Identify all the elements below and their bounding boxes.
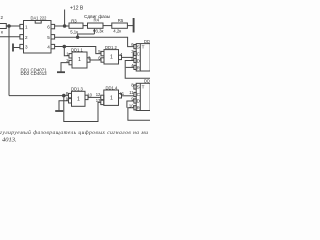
svg-text:1: 1: [110, 96, 113, 102]
svg-text:4: 4: [47, 45, 50, 50]
pin number DD1.2 out: [120, 52, 123, 57]
ground under DD1.1: [57, 71, 65, 73]
pin 1 stub DD1.1: [69, 54, 72, 58]
svg-text:DD2 CD4013: DD2 CD4013: [21, 71, 48, 76]
label R2 value: [1, 15, 4, 35]
svg-text:к: к: [1, 30, 3, 35]
pin number DD1.1 out: [88, 55, 91, 60]
pin 2 stub DD1.1: [69, 60, 72, 64]
wire junction down to DD1.1 pin1: [64, 47, 69, 56]
ground bar top right: [133, 18, 135, 33]
wire R5 to common bar: [127, 25, 133, 27]
svg-text:R3: R3: [71, 18, 77, 23]
wire DD1.4 out to DD2.2 C: [122, 95, 134, 97]
svg-text:S: S: [137, 85, 140, 90]
resistor R5: [112, 23, 128, 28]
pin 9 stub DD1.3: [69, 99, 72, 103]
label R3: [71, 18, 77, 23]
pin numbers DD2.2: [129, 83, 134, 109]
gate symbol 1 DD1.3: [77, 97, 80, 103]
wire DD2.1 D feedback: [125, 61, 150, 79]
gate symbol 1 DD1.1: [78, 57, 81, 63]
caption line 1: [0, 129, 148, 136]
ground at DA1 pin3: [13, 44, 20, 52]
wire DD1.1 out to DD1.2 pin6: [90, 59, 101, 61]
pin numbers DD1.1: [66, 51, 69, 63]
wire input to pin1: [6, 25, 20, 27]
wire to DD1.3 pin8: [9, 95, 69, 97]
wire DD1.1 pin2 to ground: [61, 63, 69, 72]
label DD1.2: [105, 45, 118, 50]
wire pin6 to R3: [55, 25, 69, 27]
wire +12V supply: [64, 10, 66, 27]
pin 5 stub: [51, 35, 55, 39]
wire R3-R4: [83, 25, 88, 27]
node input junction: [8, 25, 11, 28]
resistor R4: [88, 23, 104, 28]
pin 12 stub DD1.4: [101, 95, 104, 99]
label phase shift: [84, 14, 111, 19]
OR gate DD1.1: [72, 52, 87, 68]
pin numbers DA1 right: [47, 25, 50, 50]
pin numbers DD1.2: [98, 49, 101, 60]
svg-text:12: 12: [96, 92, 101, 97]
label DD1.4: [106, 85, 119, 90]
flip-flop DD2.2: [136, 83, 150, 110]
svg-text:DD1.1: DD1.1: [71, 47, 84, 52]
wire DD2.1 R feedback: [126, 66, 134, 68]
label DD1 CD4071 DD2 CD4013: [21, 67, 48, 75]
svg-text:11: 11: [129, 90, 134, 95]
pin numbers DD1.3: [66, 91, 69, 101]
svg-text:DA1 222: DA1 222: [31, 16, 48, 21]
svg-text:T: T: [142, 45, 145, 50]
svg-text:4,2к: 4,2к: [113, 28, 121, 33]
letter T DD2.2: [142, 84, 145, 89]
pin 5 stub DD1.2: [101, 51, 104, 55]
label 4.2k: [113, 28, 121, 33]
label R5: [118, 18, 124, 23]
svg-text:DD2.2: DD2.2: [144, 79, 150, 84]
label R4: [94, 18, 100, 23]
label DD1.1: [71, 47, 84, 52]
pin 6 stub DD1.2: [101, 58, 104, 62]
pin 10 stub DD1.3 output: [85, 95, 88, 99]
label +12 V: [70, 6, 84, 12]
caption line 2: [2, 136, 17, 143]
pin 4 stub DD1.2 output: [119, 55, 122, 59]
label DD2.1: [144, 39, 157, 44]
svg-text:3,3к: 3,3к: [96, 28, 104, 33]
svg-text:5: 5: [47, 35, 50, 40]
letters S C D R DD2.2: [137, 85, 141, 111]
pin number DD1.4 out: [120, 91, 125, 96]
node +12V junction: [63, 25, 66, 28]
wire DA1 pin4 to DD1.2 pin5: [55, 47, 101, 54]
pin stubs DD2.2: [134, 85, 136, 110]
pin number DD1.3 out: [87, 92, 92, 97]
pin numbers DA1 left: [25, 25, 28, 50]
svg-text:10: 10: [129, 103, 134, 108]
svg-text:R5: R5: [118, 18, 124, 23]
pin 8 stub DD1.3: [69, 93, 72, 97]
svg-text:5,1к: 5,1к: [70, 29, 78, 34]
label DA1 222: [31, 16, 48, 21]
wire DD2.2 D: [127, 101, 134, 108]
node bottom junction: [63, 94, 66, 97]
wire DA1 pin5 to DD2.1 S: [55, 37, 134, 46]
svg-text:10: 10: [87, 92, 92, 97]
svg-text:11: 11: [120, 91, 125, 96]
svg-text:3: 3: [25, 45, 28, 50]
svg-text:Сдвиг фазы: Сдвиг фазы: [84, 14, 111, 19]
wire DA1 pin2 to left edge: [0, 36, 20, 38]
OR gate DD1.2: [104, 50, 119, 64]
svg-text:1: 1: [25, 25, 28, 30]
label 5.1k: [70, 29, 78, 34]
wire DD1.3 pin9 to ground: [59, 101, 69, 111]
letter T DD2.1: [142, 45, 145, 50]
svg-text:4013.: 4013.: [2, 136, 17, 143]
pin numbers DD2.1: [131, 42, 134, 68]
svg-text:егулируемый фазовращатель цифр: егулируемый фазовращатель цифровых сигна…: [0, 129, 148, 136]
svg-text:DD2.1: DD2.1: [144, 39, 150, 44]
label DD1.3: [71, 87, 84, 92]
pin 13 stub DD1.4: [101, 100, 104, 104]
resistor R3: [69, 23, 83, 28]
svg-text:6: 6: [47, 25, 50, 30]
pin 2 stub: [20, 35, 24, 39]
label 3.3k: [96, 28, 104, 33]
svg-text:T: T: [142, 84, 145, 89]
svg-text:13: 13: [96, 98, 101, 103]
label DD2.2: [144, 79, 157, 84]
pin stubs DD2.1: [134, 45, 136, 70]
wire bottom loop to DD1.4 pin13: [64, 96, 101, 122]
wire DD1.2 out to DD2.1 C: [122, 54, 134, 58]
pin numbers DD1.4: [96, 92, 101, 103]
svg-text:DD1.3: DD1.3: [71, 87, 84, 92]
ground under DD1.3: [55, 110, 63, 112]
wire long input vertical: [8, 26, 10, 96]
svg-text:1: 1: [77, 97, 80, 103]
potentiometer R4 wiper arrow: [93, 28, 96, 34]
pin 1 stub: [20, 24, 24, 28]
pin 3 stub: [20, 44, 24, 48]
OR gate DD1.3: [72, 91, 86, 106]
gate symbol 1 DD1.2: [110, 54, 113, 60]
flip-flop DD2.1: [136, 44, 150, 71]
OR gate DD1.4: [104, 90, 119, 105]
wire R4-R5: [103, 25, 112, 27]
svg-text:+12 В: +12 В: [70, 6, 84, 12]
wire wiper jog: [78, 34, 95, 37]
node wiper junction: [76, 36, 78, 38]
op-amp DA1 body: [24, 21, 52, 54]
svg-text:1: 1: [78, 57, 81, 63]
pin 3 stub DD1.1 output: [87, 58, 90, 62]
pin 6 stub: [51, 24, 55, 28]
svg-text:DD1.2: DD1.2: [105, 45, 118, 50]
resistor R2 (cut at left edge): [0, 24, 6, 29]
wire DD1.3 out to DD1.4 pin12: [88, 96, 101, 98]
svg-text:DD1.4: DD1.4: [106, 85, 119, 90]
wire DD2.2 R loop: [128, 108, 150, 121]
pin 11 stub DD1.4 output: [119, 94, 122, 98]
letters S C D R DD2.1: [137, 45, 141, 71]
svg-text:2: 2: [25, 35, 28, 40]
svg-text:S: S: [137, 45, 140, 50]
pin 4 stub: [51, 44, 55, 48]
node pin4 junction: [63, 45, 66, 48]
gate symbol 1 DD1.4: [110, 96, 113, 102]
svg-text:1: 1: [110, 54, 113, 60]
